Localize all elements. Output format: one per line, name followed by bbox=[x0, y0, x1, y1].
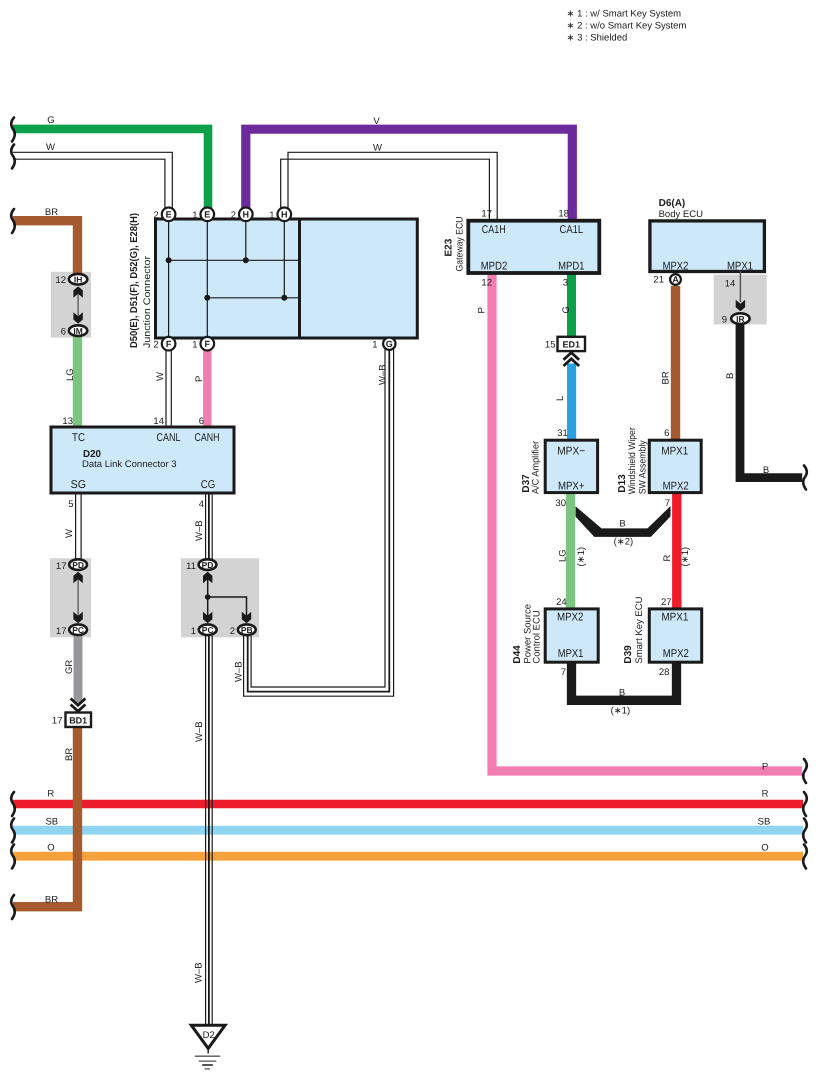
wire B black (*2) between D37 MPX+ and D13 MPX2 bbox=[576, 506, 671, 537]
svg-text:MPX2: MPX2 bbox=[663, 481, 689, 493]
junction node dot 1H bus2 bbox=[281, 295, 287, 301]
svg-text:PB: PB bbox=[241, 625, 253, 635]
svg-text:14: 14 bbox=[725, 279, 736, 290]
svg-text:H: H bbox=[243, 210, 250, 220]
wire B black from IR down and right to edge bbox=[740, 324, 802, 478]
svg-text:2: 2 bbox=[154, 339, 159, 350]
wire break curl R right bbox=[803, 792, 807, 816]
junction connector divider bbox=[298, 219, 301, 338]
svg-text:F: F bbox=[205, 339, 211, 349]
wire V violet from 2H to E23 CA1L bbox=[246, 129, 573, 219]
wire W white double-line top-left to 2E bbox=[13, 152, 172, 208]
svg-text:Gateway ECU: Gateway ECU bbox=[455, 216, 466, 271]
svg-text:W: W bbox=[155, 372, 166, 381]
chevron arrow below ED1 bbox=[564, 353, 580, 366]
svg-text:PD: PD bbox=[72, 560, 84, 570]
D44 Power Source Control ECU box bbox=[545, 609, 598, 662]
wire break curl O left bbox=[11, 845, 15, 869]
svg-text:MPX1: MPX1 bbox=[661, 446, 688, 458]
svg-text:A: A bbox=[672, 275, 679, 285]
svg-text:SB: SB bbox=[45, 817, 58, 828]
wire break curl B right bbox=[803, 466, 807, 490]
wire break curl P right bbox=[803, 759, 807, 783]
svg-text:(∗1): (∗1) bbox=[611, 706, 631, 717]
svg-text:17: 17 bbox=[52, 716, 63, 727]
svg-text:MPX−: MPX− bbox=[557, 446, 585, 458]
junction node dot 1E bus2 bbox=[204, 295, 210, 301]
svg-text:MPX2: MPX2 bbox=[663, 648, 689, 660]
wire W-B from PC down to ground D2 bbox=[206, 636, 213, 1026]
D20 Data Link Connector 3 box bbox=[51, 427, 234, 493]
wire SB skyblue horizontal bottom bbox=[13, 826, 803, 835]
svg-text:B: B bbox=[725, 373, 736, 379]
svg-text:G: G bbox=[386, 339, 393, 349]
pin circle 1G bbox=[372, 338, 395, 351]
svg-text:5: 5 bbox=[68, 499, 73, 510]
svg-text:17: 17 bbox=[56, 561, 67, 572]
svg-text:2: 2 bbox=[230, 626, 235, 637]
svg-text:W: W bbox=[64, 529, 75, 538]
BD1 box bbox=[66, 713, 92, 728]
svg-text:ED1: ED1 bbox=[562, 340, 580, 350]
svg-text:O: O bbox=[47, 843, 54, 854]
svg-text:GR: GR bbox=[64, 660, 75, 674]
svg-text:BR: BR bbox=[64, 748, 75, 761]
junction internal wire 2H bbox=[245, 220, 247, 260]
svg-text:R: R bbox=[662, 555, 673, 562]
svg-text:V: V bbox=[373, 116, 380, 127]
svg-text:P: P bbox=[194, 376, 205, 382]
svg-text:IR: IR bbox=[736, 314, 745, 324]
svg-text:9: 9 bbox=[722, 315, 727, 326]
pin circle 2E bbox=[154, 208, 176, 222]
svg-text:D2: D2 bbox=[203, 1030, 215, 1041]
svg-text:3: 3 bbox=[563, 278, 568, 289]
wire break curl W left bbox=[11, 145, 15, 169]
svg-text:17: 17 bbox=[481, 209, 492, 220]
svg-text:21: 21 bbox=[653, 274, 664, 285]
svg-text:F: F bbox=[166, 339, 172, 349]
svg-text:PD: PD bbox=[202, 560, 214, 570]
svg-text:E: E bbox=[204, 210, 210, 220]
E23 Gateway ECU box bbox=[468, 221, 599, 273]
wire BR brown from D6 pin21 A to D13 MPX1 bbox=[671, 286, 680, 441]
wire G green from E23 MPD1 to ED1 bbox=[567, 271, 576, 338]
junction internal bus 2 bbox=[207, 297, 298, 299]
svg-text:E: E bbox=[166, 210, 172, 220]
terminal oval IM bbox=[69, 325, 87, 336]
svg-text:CA1H: CA1H bbox=[482, 224, 506, 236]
svg-text:12: 12 bbox=[481, 278, 492, 289]
branch wire to PB bbox=[208, 597, 247, 617]
pin circle 2F bbox=[154, 337, 176, 351]
arrow from D6 MPX1 pin 14 down to IR bbox=[739, 271, 741, 302]
svg-text:MPX+: MPX+ bbox=[558, 481, 585, 493]
junction internal bus 1 bbox=[169, 259, 298, 261]
svg-text:13: 13 bbox=[62, 416, 73, 427]
svg-text:P: P bbox=[762, 762, 768, 773]
svg-text:W–B: W–B bbox=[194, 962, 205, 983]
svg-text:W–B: W–B bbox=[194, 721, 205, 742]
svg-text:R: R bbox=[47, 789, 54, 800]
svg-text:B: B bbox=[763, 465, 769, 476]
wire P pink from 1F to D20 CANH bbox=[203, 349, 211, 428]
svg-text:6: 6 bbox=[199, 416, 204, 427]
wire LG from D37 MPX+ to D44 MPX2 bbox=[566, 492, 575, 610]
wire O orange horizontal bottom bbox=[13, 852, 803, 861]
wire break curl G left bbox=[11, 118, 15, 142]
gray shield PD/PC/PB connector block center bbox=[181, 558, 259, 637]
terminal oval PC center bbox=[199, 624, 217, 635]
gray shield IH/IM connector block bbox=[51, 272, 91, 338]
svg-text:L: L bbox=[555, 396, 566, 401]
svg-text:11: 11 bbox=[186, 561, 196, 572]
junction connector D50(E) D51(F) D52(G) E28(H) box bbox=[156, 219, 418, 338]
terminal oval IH bbox=[69, 274, 87, 285]
junction internal wire 1E-1F bbox=[206, 220, 208, 337]
pin circle 1E bbox=[192, 208, 214, 222]
wire break curl R left bbox=[11, 792, 15, 816]
svg-text:P: P bbox=[477, 307, 488, 313]
svg-text:Windshield Wiper: Windshield Wiper bbox=[627, 427, 638, 494]
svg-text:6: 6 bbox=[61, 327, 66, 338]
svg-text:Data Link Connector 3: Data Link Connector 3 bbox=[82, 459, 177, 470]
D39 Smart Key ECU box bbox=[649, 609, 701, 662]
svg-text:H: H bbox=[281, 210, 288, 220]
wire W-B loop from PB right and up to 1G bbox=[244, 349, 394, 696]
terminal oval PC left bbox=[69, 624, 87, 635]
svg-text:Smart Key ECU: Smart Key ECU bbox=[634, 596, 645, 663]
junction internal wire 2E-2F bbox=[168, 220, 170, 337]
svg-text:1: 1 bbox=[192, 339, 197, 350]
svg-text:15: 15 bbox=[545, 340, 556, 351]
svg-text:MPX2: MPX2 bbox=[663, 260, 689, 272]
svg-text:7: 7 bbox=[665, 498, 670, 509]
svg-text:BD1: BD1 bbox=[69, 716, 87, 726]
pin circle A bbox=[670, 274, 681, 285]
wire LG from IM to D20 pin13 bbox=[73, 336, 82, 428]
svg-text:MPD1: MPD1 bbox=[558, 260, 584, 272]
svg-text:2: 2 bbox=[231, 210, 236, 221]
svg-text:W–B: W–B bbox=[378, 364, 389, 385]
svg-text:(∗1): (∗1) bbox=[576, 547, 587, 567]
terminal oval PB bbox=[238, 624, 256, 635]
terminal oval PD center bbox=[199, 559, 217, 570]
wire break curl BR bottom-left bbox=[11, 895, 15, 919]
wire break curl SB right bbox=[803, 819, 807, 843]
svg-text:PC: PC bbox=[202, 625, 214, 635]
svg-text:E23: E23 bbox=[444, 238, 455, 256]
svg-text:∗ 1 : w/ Smart Key System: ∗ 1 : w/ Smart Key System bbox=[567, 9, 682, 20]
svg-text:12: 12 bbox=[55, 275, 66, 286]
D37 A/C Amplifier box bbox=[545, 440, 597, 492]
svg-text:D44: D44 bbox=[512, 645, 523, 664]
wire P pink from E23 MPD2 down and right bbox=[492, 271, 802, 771]
wire G green horizontal top-left bbox=[13, 129, 208, 208]
svg-text:MPX2: MPX2 bbox=[557, 612, 583, 624]
svg-text:Junction Connector: Junction Connector bbox=[142, 256, 153, 348]
svg-text:W–B: W–B bbox=[234, 661, 245, 682]
svg-text:1: 1 bbox=[372, 339, 377, 350]
wire R red from D13 MPX2 to D39 MPX1 bbox=[672, 492, 681, 610]
svg-text:MPD2: MPD2 bbox=[481, 260, 508, 272]
svg-text:BR: BR bbox=[45, 895, 58, 906]
svg-text:IM: IM bbox=[73, 326, 82, 336]
svg-text:∗ 3 : Shielded: ∗ 3 : Shielded bbox=[567, 33, 628, 44]
D6(A) Body ECU box bbox=[650, 221, 765, 272]
svg-text:G: G bbox=[561, 306, 572, 313]
svg-text:CANH: CANH bbox=[195, 432, 220, 444]
svg-text:Body ECU: Body ECU bbox=[659, 209, 703, 220]
svg-text:CANL: CANL bbox=[157, 432, 181, 444]
svg-text:18: 18 bbox=[558, 209, 569, 220]
junction node dot 2H bus1 bbox=[243, 257, 249, 263]
ground symbol D2 bbox=[191, 1025, 225, 1069]
arrow pair PD-PC left bbox=[77, 578, 79, 617]
svg-text:IH: IH bbox=[74, 274, 83, 284]
svg-text:CA1L: CA1L bbox=[560, 224, 584, 236]
arrow pair IH-IM bbox=[77, 293, 79, 317]
wire L blue from ED1 chevron to D37 MPX- bbox=[567, 364, 576, 442]
svg-text:B: B bbox=[619, 687, 625, 698]
svg-text:(∗2): (∗2) bbox=[614, 537, 634, 548]
svg-text:BR: BR bbox=[661, 371, 672, 384]
junction internal wire 1H bbox=[283, 220, 285, 298]
svg-text:24: 24 bbox=[556, 597, 567, 608]
svg-text:W: W bbox=[46, 142, 55, 153]
svg-text:D50(E), D51(F), D52(G), E28(H): D50(E), D51(F), D52(G), E28(H) bbox=[129, 213, 140, 348]
svg-text:4: 4 bbox=[199, 499, 204, 510]
wire W white double-line 2F to D20 CANL bbox=[166, 349, 171, 428]
svg-text:LG: LG bbox=[65, 368, 76, 381]
pin circle 2H bbox=[231, 208, 253, 222]
terminal oval PD left bbox=[69, 559, 87, 570]
wire GR gray from PC to BD1 bbox=[74, 636, 83, 703]
wire R red horizontal bottom bbox=[13, 800, 803, 809]
svg-text:LG: LG bbox=[558, 549, 569, 562]
svg-text:2: 2 bbox=[154, 210, 159, 221]
svg-text:1: 1 bbox=[269, 210, 274, 221]
svg-text:CG: CG bbox=[201, 479, 216, 491]
ED1 box bbox=[558, 337, 586, 351]
svg-text:(∗1): (∗1) bbox=[680, 547, 691, 567]
svg-text:30: 30 bbox=[555, 498, 566, 509]
svg-text:1: 1 bbox=[192, 210, 197, 221]
junction node dot 2E bus1 bbox=[166, 257, 172, 263]
pin circle 1F bbox=[192, 337, 214, 351]
wire B black (*1) between D44 MPX1 and D39 MPX2 bbox=[572, 661, 677, 700]
svg-text:6: 6 bbox=[664, 428, 669, 439]
svg-text:G: G bbox=[47, 115, 54, 126]
svg-text:14: 14 bbox=[153, 416, 164, 427]
svg-text:W–B: W–B bbox=[194, 520, 205, 541]
svg-text:28: 28 bbox=[659, 667, 670, 678]
svg-text:D39: D39 bbox=[623, 645, 634, 664]
node dot bbox=[205, 594, 211, 600]
wire W white double-line from 1H to E23 CA1H bbox=[281, 152, 498, 219]
wire BR brown top-left to IH bbox=[13, 221, 78, 274]
svg-text:7: 7 bbox=[561, 667, 566, 678]
svg-text:A/C Amplifier: A/C Amplifier bbox=[531, 441, 542, 494]
svg-text:B: B bbox=[619, 519, 625, 530]
svg-text:TC: TC bbox=[72, 432, 85, 444]
wire break curl O right bbox=[803, 845, 807, 869]
svg-text:Control ECU: Control ECU bbox=[532, 610, 543, 663]
svg-text:D6(A): D6(A) bbox=[659, 198, 686, 209]
svg-text:W: W bbox=[373, 143, 382, 154]
svg-text:SW Assembly: SW Assembly bbox=[638, 440, 649, 494]
svg-text:∗ 2 : w/o Smart Key System: ∗ 2 : w/o Smart Key System bbox=[567, 21, 687, 32]
wire break curl BR left bbox=[11, 209, 15, 233]
terminal oval IR bbox=[731, 313, 749, 324]
chevron arrow above BD1 bbox=[71, 699, 86, 712]
wire BR brown from BD1 down and left bbox=[13, 727, 78, 907]
svg-text:SB: SB bbox=[758, 817, 771, 828]
svg-text:31: 31 bbox=[557, 428, 568, 439]
svg-text:MPX1: MPX1 bbox=[727, 260, 753, 272]
svg-text:SG: SG bbox=[71, 479, 86, 491]
svg-text:17: 17 bbox=[56, 626, 67, 637]
svg-text:MPX1: MPX1 bbox=[661, 612, 688, 624]
pin circle 1H bbox=[269, 208, 291, 222]
wire break curl SB left bbox=[11, 819, 15, 843]
svg-text:1: 1 bbox=[191, 626, 196, 637]
wire W white double-line D20 SG to PD bbox=[76, 492, 82, 559]
D13 Windshield Wiper SW Assembly box bbox=[649, 440, 701, 492]
svg-text:27: 27 bbox=[661, 597, 672, 608]
svg-text:R: R bbox=[762, 789, 769, 800]
svg-text:O: O bbox=[761, 843, 768, 854]
svg-text:BR: BR bbox=[45, 207, 58, 218]
gray shield D6 pin14/IR block bbox=[714, 275, 767, 325]
wire W-B from D20 CG to PD center bbox=[206, 492, 213, 559]
svg-text:MPX1: MPX1 bbox=[558, 648, 584, 660]
arrow tree PD to PC and PB bbox=[207, 578, 209, 617]
svg-text:PC: PC bbox=[72, 625, 84, 635]
gray shield PD/PC connector block left bbox=[50, 558, 91, 637]
